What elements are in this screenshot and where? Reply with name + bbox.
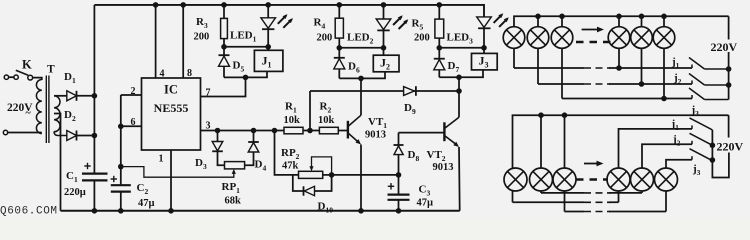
node: VT1 emitter ground junction [358,208,364,214]
node: D1 / + rail junction [92,93,98,99]
svg-text:IC: IC [164,83,178,97]
svg-text:7: 7 [206,87,211,98]
wire: pin 3 output line [201,130,348,132]
lamp H2 (top string) [527,27,549,49]
svg-text:10k: 10k [318,115,335,126]
wire: 220V feed vertical (top, above label) [728,16,730,39]
wire: C2 to ground rail [120,192,122,211]
LED2 emission arrows [393,15,408,29]
wire: lamp top stub x=619 [618,16,620,27]
wire: R3 node to LED1 node [224,46,268,48]
wire: secondary center tap down to ground rail [54,114,61,211]
node: R3/D5 junction [221,44,227,50]
node: L2 bus junction [538,112,544,118]
label 220V (AC input) [7,102,33,119]
wire: RP2 left branch [275,131,299,175]
wire: top lamp bus [514,16,729,27]
node: R1/R2/D9 junction [307,128,313,134]
wire: L3 drop [564,191,566,212]
wire: D6 bottom to J2 bottom [339,72,385,79]
dashed gap rail j1 [584,201,610,203]
node: j2 landing junction [710,143,716,149]
wire: bottom ground rail [61,210,460,212]
wire: H1 drop to row j1 [513,48,515,68]
wire: D8 to node [398,155,400,175]
potentiometer RP1 body [225,162,245,169]
wire: D10 to RP2 right node [315,175,332,191]
op-amp U1 IC NE555 body [142,78,201,150]
svg-text:200: 200 [414,33,430,44]
wire: L1 drop [512,191,514,203]
svg-text:NE555: NE555 [154,101,189,115]
node: lamp bus junction x=562 [559,13,565,19]
wire: RP2 wiper loop [312,157,332,175]
resistor R2 [319,127,338,134]
lamp L6 (bottom string) [655,168,678,191]
relay contact j3 (bottom) [690,149,713,161]
wire: D2 cathode to + rail [77,135,95,137]
svg-text:68k: 68k [225,196,242,207]
wire: secondary bottom tap to D2 [54,132,67,136]
wire: H2 drop to row j2 [537,48,539,84]
LED LED2 [376,5,391,55]
lamp H4 (top string) [608,27,630,49]
wire: return rail j3 (bottom) [565,211,667,213]
svg-text:47k: 47k [282,161,299,172]
node: pin3/D3 junction [215,128,221,134]
wire: D1 cathode to + rail [77,95,95,97]
diode D3 [212,131,224,166]
diode D4 [245,131,259,166]
relay J2 coil [373,55,399,72]
relay J1 coil [254,50,283,71]
node: j1 common junction [726,66,732,72]
node: C2 ground junction [118,208,124,214]
wire: H4 drop to row j1 [618,48,620,68]
svg-text:200: 200 [194,32,210,43]
dashed continuation (bottom string) [576,178,608,181]
wire: pin 8 to top rail [182,5,184,78]
switch K [9,70,33,80]
node: lamp bus junction x=538 [535,13,541,19]
node: pin1 ground junction [168,208,174,214]
wire: L4 drop [618,191,620,202]
node: lamp bus junction x=641.5 [639,13,645,19]
lamp L1 (bottom string) [504,168,527,191]
node: VT1 collector drive junction [358,76,364,82]
wire: lamp top stub x=641.5 [641,16,643,27]
wire: lamp top stub x=562 [561,16,563,27]
wire: D5 bottom to J1 bottom [224,71,267,77]
wire: common U-link to 220V feed [712,153,729,178]
node: C3/D8/RP2-line junction [396,172,402,178]
wire: + supply left rail [93,5,95,174]
node: pin7 drive junction [243,75,249,81]
wire: timing node to RP1 wiper [121,167,234,178]
wire: contact row j1 (bottom) [619,129,693,169]
svg-text:9013: 9013 [365,130,386,141]
wire: bottom lamp bus [513,115,729,169]
wire: L2 top stub [540,115,542,168]
svg-text:3: 3 [206,121,211,132]
relay contact j3 (top) [689,88,729,100]
potentiometer RP2 body [299,171,323,178]
LED LED1 [261,5,276,50]
node: LED2/J2 junction [381,45,387,51]
svg-text:Q606.COM: Q606.COM [0,206,58,218]
node: D2 / + rail junction [92,133,98,139]
svg-text:220V: 220V [717,140,744,154]
lamp H5 (top string) [631,27,653,49]
wire: contact row j3 (top) [562,98,692,100]
diode D10 [304,186,315,195]
capacitor C1 (220u) [82,163,108,181]
wire: D10 left branch [293,175,304,191]
arrow: bottom string continuation [584,161,604,167]
transistor VT2 9013 [444,117,459,147]
node: R5 top rail junction [437,2,443,8]
wire: VT1 emitter to ground [360,145,362,211]
wire: top supply rail [94,5,484,17]
AC mains source 220V terminals [3,75,8,135]
wire: RP2 right terminal [323,174,332,176]
RP1 wiper arrowhead [232,169,236,174]
wire: + supply left rail below C1 [93,180,95,210]
wire: RP2 node to C3/D8 node [332,174,399,176]
relay contact j2 (bottom) [690,133,713,145]
node: pin6 junction on tie rail [118,124,124,130]
svg-text:~: ~ [26,108,32,119]
wire: VT2 base line [399,132,445,134]
LED3 emission arrows [494,13,509,27]
diode D6 [334,48,345,79]
wire: secondary top tap to D1 [54,95,67,97]
lamp H3 (top string) [551,27,573,49]
node: j3 landing junction [710,157,716,163]
LED LED3 [477,17,492,54]
node: H5 on row j2 [639,81,645,87]
lamp L5 (bottom string) [631,168,654,191]
wire: D9 link R1R2-node to VT2 collector [310,90,459,92]
wire: 220V feed vertical (bottom, above label) [728,115,730,137]
node: LED1 top rail junction [265,2,271,8]
wire: pin 2 [121,94,142,96]
wire: contact row j3 (bottom) [666,160,692,169]
node: C1 ground junction [92,208,98,214]
node: LED1/J1 junction [265,44,271,50]
resistor R3 [221,5,228,47]
lamp L2 (bottom string) [530,168,553,191]
svg-text:6: 6 [131,117,136,128]
node: R3 top rail junction [221,2,227,8]
wire: R4 node to LED2 node [339,47,383,49]
wire: switch to transformer primary top [33,78,42,80]
wire: pin 7 to relay J1 drive node [201,77,246,96]
capacitor C3 (47u) [388,175,410,211]
svg-text:2: 2 [131,86,136,97]
wire: 220V feed vertical (top, below label) [728,52,730,100]
wire: L3 top stub [564,115,566,168]
wire: H6 drop to row j3 [663,48,665,99]
wire: H3 drop to row j3 [561,48,563,99]
wire: pin 6 [121,125,142,127]
wire: contact row j2 (top) [538,83,692,85]
diode D5 [219,47,230,78]
wire: L6 drop [665,191,667,212]
relay contact j1 (top) [689,58,729,70]
lamp H1 (top string) [503,27,525,49]
svg-text:T: T [47,64,55,76]
resistor R1 [284,127,303,134]
svg-text:8: 8 [187,68,192,79]
wire: contacts common vertical (bottom) [711,130,713,161]
svg-text:10k: 10k [284,115,301,126]
lamp H6 (top string) [653,27,675,49]
node: R4/D6 junction [337,45,343,51]
svg-text:1: 1 [159,154,164,165]
node: lamp bus junction x=664 [661,13,667,19]
wire: pin 4 to top rail [155,5,157,78]
node: VT2 collector drive junction [456,75,462,81]
wire: L5 drop [641,191,643,193]
diode D2 [67,131,77,141]
resistor R5 [435,5,444,48]
wire: VT2 collector riser [458,77,460,117]
wire: return rail j2 (bottom) [541,192,642,194]
dashed continuation (top string) [576,41,611,44]
wire: R5 node to LED3 node [439,47,484,49]
diode D8 [394,145,404,155]
svg-text:220µ: 220µ [64,187,86,198]
wire: lamp top stub x=664 [663,16,665,27]
wire: contact row j2 (bottom) [642,144,692,168]
node: timing node junction [118,164,124,170]
relay contact j1 (bottom) [690,118,713,130]
svg-text:47µ: 47µ [138,198,155,209]
node: R4 top rail junction [337,2,343,8]
node: pin3/RP2 junction [272,128,278,134]
capacitor C2 (47u) [111,176,131,192]
node: C3 ground junction [396,208,402,214]
diode D7 [434,48,445,78]
wire: contact row j1 (top) [514,67,692,69]
node: j2 common junction [726,82,732,88]
relay contact j2 (top) [689,74,729,86]
RP2 wiper arrowhead [309,166,313,171]
node: H4 on row j1 [616,65,622,71]
wire: AC bottom terminal to primary [8,132,42,134]
wire: return rail j1 (bottom) [513,201,619,203]
wire: VT1 collector riser [360,78,362,115]
node: D9/VT2 collector junction [456,88,462,94]
diode D1 [67,91,77,101]
node: L3 bus junction [562,112,568,118]
transformer T core [46,76,49,144]
transformer T primary winding [36,80,41,134]
svg-text:200: 200 [317,33,333,44]
wire: H5 drop to row j2 [641,48,643,84]
lamp L4 (bottom string) [607,168,630,191]
node: pin8 rail junction [180,2,186,8]
node: LED3/J3 junction [481,45,487,51]
wire: L2 drop [540,191,542,193]
svg-text:4: 4 [160,68,165,79]
wire: VT2 emitter to ground [458,147,461,211]
svg-text:9013: 9013 [433,162,454,173]
node: pin4 rail junction [153,2,159,8]
wire: D8 riser [398,133,400,145]
dashed gap row j1 [584,67,610,69]
node: H6 on row j3 [661,96,667,102]
svg-text:K: K [22,57,32,71]
dashed gap rail j3 [584,211,610,213]
transformer T secondary winding [54,96,60,132]
dashed gap rail j2 [584,192,610,194]
svg-text:47µ: 47µ [417,198,434,209]
dashed gap row j2 [584,83,610,85]
node: RP2/D10 junction [329,172,335,178]
wire: lamp top stub x=538 [537,16,539,27]
arrow: top string continuation [582,27,604,33]
wire: D9 riser from R1/R2 node [309,91,311,131]
node: pin3/D4 junction [251,128,257,134]
relay J3 coil [472,53,498,70]
resistor R4 [335,5,343,48]
transistor VT1 9013 [348,115,361,144]
lamp L3 (bottom string) [553,168,576,191]
node: lamp bus junction x=619 [616,13,622,19]
wire: pin 1 to ground [170,150,172,211]
wire: D7 bottom to J3 bottom [439,70,483,77]
LED1 emission arrows [278,14,293,28]
node: R5/D7 junction [437,45,443,51]
node: LED2 top rail junction [381,2,387,8]
svg-text:220V: 220V [711,40,738,54]
diode D9 [404,86,416,96]
wire: pin2/pin6 tie rail [120,95,122,185]
